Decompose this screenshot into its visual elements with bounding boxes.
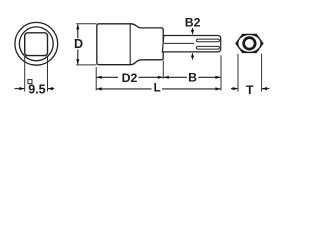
svg-text:L: L bbox=[154, 82, 161, 95]
square symbol of 9,5 label bbox=[28, 80, 32, 84]
hexagon (spline end view, flat-top) bbox=[236, 34, 263, 52]
extension line body left (D2/L) bbox=[95, 67, 97, 90]
white disc inside hexagon bbox=[238, 35, 260, 52]
spline groove slot lower bbox=[196, 46, 219, 49]
extension line hexagon right bbox=[261, 54, 263, 92]
body/neck tangent line bbox=[129, 24, 131, 64]
shaft facet middle line bbox=[164, 42, 194, 44]
extension line left of 9,5 bbox=[24, 57, 26, 92]
square drive hole bbox=[25, 33, 48, 56]
dimension T right arrow bbox=[262, 87, 270, 90]
svg-text:D: D bbox=[74, 37, 83, 51]
spline groove slot upper bbox=[196, 39, 219, 42]
svg-text:B: B bbox=[188, 70, 197, 84]
extension line hexagon left bbox=[237, 54, 239, 92]
dimension D top extension bbox=[76, 23, 96, 25]
dimension L line with arrows bbox=[97, 87, 221, 90]
extension line tip end (B/L) bbox=[220, 55, 222, 90]
inner circle bbox=[19, 27, 53, 61]
svg-text:B2: B2 bbox=[185, 16, 201, 30]
dimension D vertical line + arrows bbox=[76, 24, 79, 64]
dimension B line with arrows bbox=[164, 76, 221, 79]
svg-text:T: T bbox=[246, 83, 254, 97]
dimension T left arrow bbox=[231, 87, 238, 90]
bit shaft with rounded tip bbox=[162, 36, 220, 52]
dimension B2 bottom arrow bbox=[191, 53, 194, 60]
dimension D bottom extension bbox=[76, 64, 96, 66]
dimension D2 line with arrows bbox=[97, 76, 163, 79]
spline profile circle bbox=[244, 38, 256, 50]
svg-text:D2: D2 bbox=[122, 71, 138, 85]
extension line right of 9,5 bbox=[47, 57, 49, 92]
dimension B2 top arrow bbox=[191, 28, 194, 35]
extension line shoulder (D2/B) bbox=[162, 61, 164, 79]
dimension 9,5 left arrow bbox=[15, 87, 25, 90]
outer circle (square drive end view) bbox=[15, 22, 58, 65]
dimension 9,5 right arrow bbox=[48, 87, 54, 90]
socket body with neck profile bbox=[97, 24, 163, 65]
svg-text:9.5: 9.5 bbox=[28, 82, 45, 96]
